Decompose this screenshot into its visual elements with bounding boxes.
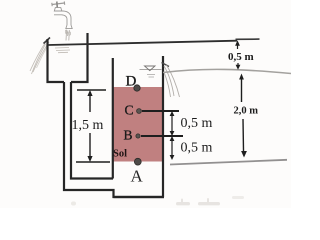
dimension 0,5m top right (235, 40, 240, 70)
lip tick big tank (162, 63, 170, 67)
overflow sketch strokes (top-left) (30, 40, 49, 74)
faint bottom smudges (71, 196, 244, 206)
node D (134, 85, 140, 91)
svg-text:2,0 m: 2,0 m (234, 106, 259, 117)
svg-text:B: B (124, 128, 133, 143)
svg-text:1,5 m: 1,5 m (72, 118, 104, 133)
big tank left wall (112, 58, 114, 179)
water stream from faucet (65, 30, 70, 41)
dimension 1,5m left (76, 90, 110, 162)
svg-text:0,5 m: 0,5 m (228, 51, 254, 63)
leader line from node B (141, 135, 183, 137)
leader line from node C (142, 110, 179, 112)
node B (136, 134, 140, 138)
node A (134, 158, 141, 165)
jet curve (upper gray curve) (163, 69, 291, 73)
dimension 0,5m between B and Sol (170, 136, 175, 160)
spill strokes over right wall (164, 65, 180, 97)
node C (137, 109, 142, 114)
big tank right wall (162, 56, 164, 197)
water surface symbol in big tank (140, 66, 162, 77)
ground curve (lower gray curve) (170, 160, 287, 165)
reservoir (small tank) right wall and bottom (71, 33, 88, 82)
dimension 2,0m right (239, 74, 247, 158)
faucet (52, 1, 72, 28)
pipe outer wall and big tank bottom step (64, 82, 164, 197)
lip tick small tank (44, 38, 51, 44)
svg-text:0,5 m: 0,5 m (181, 141, 213, 156)
water level long top line (48, 41, 237, 45)
svg-text:Sol: Sol (113, 149, 127, 160)
reservoir (small tank) left wall and bottom (48, 39, 65, 82)
big tank pink wall region (113, 87, 163, 162)
svg-text:C: C (125, 103, 134, 118)
big tank bottom (114, 196, 165, 198)
pipe inner wall (reservoir to big tank) (71, 82, 113, 179)
svg-text:A: A (131, 167, 144, 186)
svg-text:0,5 m: 0,5 m (181, 116, 213, 131)
ripples in small tank (55, 48, 70, 53)
dimension 0,5m between C and B (170, 111, 175, 136)
